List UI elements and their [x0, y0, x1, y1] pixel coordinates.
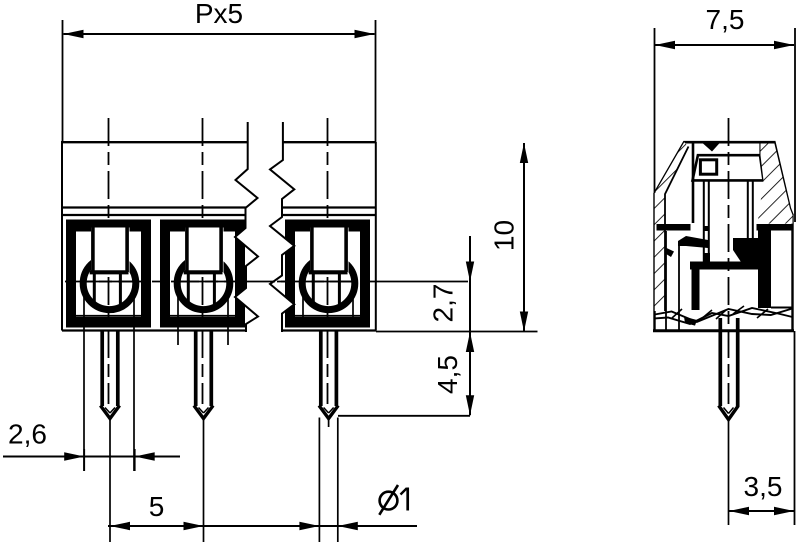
- svg-text:7,5: 7,5: [706, 4, 745, 35]
- svg-text:5: 5: [149, 491, 165, 522]
- svg-text:Px5: Px5: [195, 0, 243, 29]
- svg-text:4,5: 4,5: [432, 355, 463, 394]
- svg-text:3,5: 3,5: [744, 471, 783, 502]
- svg-text:2,7: 2,7: [428, 284, 459, 323]
- svg-text:10: 10: [489, 220, 520, 251]
- svg-text:2,6: 2,6: [8, 419, 47, 450]
